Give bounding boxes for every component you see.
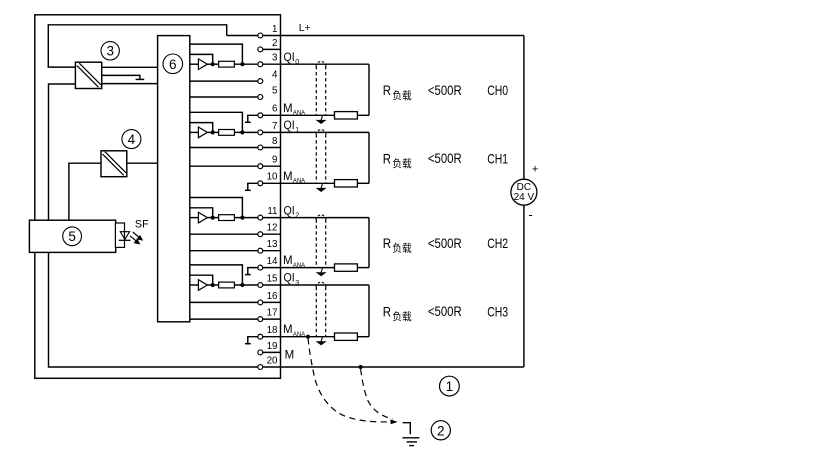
wire terminal 10 MANA stub [248, 183, 258, 190]
svg-text:<500R: <500R [428, 82, 462, 98]
wire converter 4 left rail down to box 5 [69, 163, 101, 220]
svg-text:7: 7 [272, 121, 277, 132]
svg-text:8: 8 [272, 136, 278, 147]
wire op-amp U00 output to resistor R01 [207, 63, 218, 65]
svg-text:R: R [383, 82, 391, 98]
svg-text:ANA: ANA [293, 262, 306, 269]
svg-text:M: M [283, 255, 293, 267]
node QI3 feedback junction [240, 283, 244, 287]
cable shield CH1 top cap [316, 130, 326, 135]
wire L+ supply rail [263, 35, 524, 37]
svg-text:5: 5 [272, 85, 278, 96]
wire box6 to terminal 12 [190, 233, 258, 235]
callout circle 1 [440, 376, 460, 396]
node M rail shield tap junction [359, 365, 363, 369]
ground lead arrowhead [391, 420, 397, 424]
cable shield CH0 top cap [316, 61, 326, 66]
svg-text:9: 9 [272, 155, 277, 166]
svg-text:15: 15 [267, 273, 278, 284]
wire resistor R31 to terminal 15 [234, 284, 257, 286]
LED D1 cathode bar [119, 239, 131, 241]
op-amp U00 buffer [198, 59, 207, 70]
wire box6 to terminal 4 [190, 80, 258, 82]
wire terminal 14 MANA stub [248, 268, 258, 275]
svg-text:负载: 负载 [392, 157, 412, 170]
svg-text:3: 3 [295, 280, 299, 287]
wire load resistor CH1 to loop [357, 182, 369, 184]
svg-text:3: 3 [272, 53, 278, 64]
svg-text:QI: QI [284, 120, 295, 132]
shield drain arrow CH1 [321, 184, 322, 188]
resistor R-load CH2 [335, 264, 358, 271]
terminal pin 19 circle [258, 350, 263, 355]
svg-text:CH0: CH0 [487, 82, 508, 98]
node MANA3 ground tap junction [306, 335, 310, 339]
wire box6 to op-amp U00 input [190, 63, 199, 65]
converter U3 diagonal stripe [77, 63, 101, 87]
wire terminal 18 MANA stub [248, 337, 258, 344]
terminal pin 12 circle [258, 232, 263, 237]
svg-text:SF: SF [135, 219, 149, 231]
ground hook wire [403, 423, 411, 435]
node amp1 output junction [211, 130, 215, 134]
svg-text:3: 3 [106, 44, 114, 59]
LED D1 emission arrow a [133, 232, 139, 237]
svg-text:负载: 负载 [392, 242, 412, 255]
monitor block U5 [29, 220, 115, 252]
svg-text:1: 1 [272, 24, 277, 35]
terminal pin 9 circle [258, 164, 263, 169]
wire QI0 external to load loop [263, 63, 369, 65]
svg-text:ANA: ANA [293, 331, 306, 338]
svg-text:13: 13 [267, 239, 278, 250]
terminal pin 20 circle [258, 365, 263, 370]
svg-text:ANA: ANA [293, 110, 306, 117]
cable shield CH2 top cap [316, 215, 326, 220]
internal ground bar at terminal 14 [245, 274, 251, 276]
wire MANA2 external to load resistor [263, 267, 335, 269]
shield drain arrow CH3 [321, 337, 322, 341]
wire load loop right edge CH0 [368, 64, 370, 115]
cable shield CH3 left dashed [315, 287, 317, 336]
wire box6 to terminal 16 [190, 301, 258, 303]
wire load resistor CH0 to loop [357, 114, 369, 116]
wire DC source negative lead [523, 205, 525, 367]
op-amp U20 buffer [198, 212, 207, 223]
svg-text:5: 5 [68, 229, 76, 244]
terminal pin 5 circle [258, 95, 263, 100]
svg-text:QI: QI [284, 205, 295, 217]
converter U3 box [75, 62, 101, 88]
wire box6 to terminal 8 [190, 147, 258, 149]
callout circle 2 [431, 421, 450, 440]
internal ground bar at converter 3 [136, 78, 145, 80]
resistor R21 sense [219, 215, 235, 221]
svg-text:12: 12 [267, 223, 278, 234]
node amp3 output junction [211, 283, 215, 287]
callout circle 5 [63, 227, 82, 246]
svg-text:1: 1 [446, 379, 454, 394]
LED holder box [115, 223, 124, 247]
svg-text:6: 6 [272, 104, 278, 115]
svg-text:M: M [283, 324, 293, 336]
terminal pin 3 circle [258, 62, 263, 67]
wire QI1 external to load loop [263, 131, 369, 133]
wire terminal 1 internal stub [227, 35, 258, 37]
wire resistor R01 to terminal 3 [234, 63, 257, 65]
wire box6 to terminal 17 [190, 318, 258, 320]
terminal pin 13 circle [258, 248, 263, 253]
shield drain arrow CH2 [321, 268, 322, 272]
wire converter 3 output top to box 6 [102, 66, 158, 68]
callout circle 3 [101, 42, 119, 60]
svg-text:R: R [383, 150, 391, 166]
svg-text:0: 0 [295, 59, 299, 66]
svg-text:+: + [532, 164, 538, 176]
svg-text:CH1: CH1 [487, 150, 508, 166]
wire terminal 13 stub to column [263, 250, 281, 252]
wire load loop right edge CH3 [368, 285, 370, 337]
svg-text:20: 20 [267, 355, 278, 366]
terminal pin 6 circle [258, 113, 263, 118]
svg-text:L+: L+ [299, 22, 311, 34]
cable shield CH3 top cap [316, 282, 326, 287]
svg-text:2: 2 [437, 423, 445, 438]
wire op-amp U30 output to resistor R31 [207, 284, 218, 286]
wire box6 to terminal 9 [190, 165, 258, 167]
internal ground bar at terminal 18 [245, 343, 251, 345]
wire converter 3 output bottom to box 6 [102, 83, 158, 85]
svg-text:R: R [383, 235, 391, 251]
wire L+ rail from terminal 1 to converter 3 input [48, 25, 226, 67]
svg-text:CH3: CH3 [487, 303, 508, 319]
wire M supply rail [263, 366, 524, 368]
wire M return from box 5 to terminal 20 [49, 252, 258, 367]
wire resistor R11 to terminal 7 [234, 131, 257, 133]
wire MANA1 external to load resistor [263, 182, 335, 184]
wire feedback lower box6 to node amp2 [190, 208, 213, 218]
svg-text:2: 2 [295, 212, 299, 219]
LED D1 emission arrow b [130, 236, 136, 241]
svg-text:19: 19 [267, 341, 278, 352]
LED D1 triangle [120, 232, 129, 240]
shield ground dashed curve from MANA3 [308, 338, 391, 422]
wire terminal 9 stub to column [263, 165, 281, 167]
wire load resistor CH2 to loop [357, 267, 369, 269]
wire feedback upper box6 to node QI1 [190, 112, 243, 132]
wire terminal 6 MANA stub [248, 115, 258, 122]
terminal pin 11 circle [258, 215, 263, 220]
svg-text:<500R: <500R [428, 235, 462, 251]
terminal pin 14 circle [258, 265, 263, 270]
resistor R-load CH1 [335, 180, 358, 187]
wire feedback upper box6 to node QI2 [190, 198, 243, 218]
node amp2 output junction [211, 216, 215, 220]
wire resistor R21 to terminal 11 [234, 217, 257, 219]
callout circle 4 [122, 130, 141, 149]
svg-text:ANA: ANA [293, 178, 306, 185]
svg-text:6: 6 [169, 57, 177, 72]
wire converter 3 center tap [102, 75, 140, 79]
svg-text:1: 1 [295, 127, 299, 134]
svg-text:16: 16 [267, 291, 278, 302]
svg-text:2: 2 [272, 38, 277, 49]
cable shield CH1 right dashed [325, 134, 327, 183]
cable shield CH1 left dashed [315, 134, 317, 183]
module outer frame [35, 15, 281, 379]
svg-text:4: 4 [272, 70, 278, 81]
cable shield CH2 right dashed [325, 219, 327, 267]
terminal pin 15 circle [258, 283, 263, 288]
wire terminal 16 stub to column [263, 301, 281, 303]
wire op-amp U10 output to resistor R11 [207, 131, 218, 133]
wire terminal 8 stub to column [263, 147, 281, 149]
terminal pin 16 circle [258, 300, 263, 305]
wire box6 to op-amp U20 input [190, 217, 199, 219]
shield drain arrow CH0 [321, 116, 322, 120]
resistor R-load CH3 [335, 333, 358, 340]
svg-text:-: - [528, 207, 532, 222]
wire load resistor CH3 to loop [357, 336, 369, 338]
source V1 DC 24V circle [511, 179, 537, 205]
logic block U6 [158, 36, 190, 322]
resistor R11 sense [219, 130, 235, 136]
wire QI2 external to load loop [263, 217, 369, 219]
svg-text:<500R: <500R [428, 303, 462, 319]
wire feedback lower box6 to node amp1 [190, 123, 213, 133]
converter U4 diagonal stripe [103, 152, 127, 176]
svg-text:QI: QI [284, 273, 295, 285]
svg-text:M: M [285, 350, 295, 362]
terminal pin 10 circle [258, 181, 263, 186]
svg-text:4: 4 [128, 132, 136, 147]
wire feedback upper box6 to node QI0 [190, 44, 243, 64]
callout circle 6 [163, 54, 183, 74]
svg-text:M: M [283, 171, 293, 183]
cable shield CH0 right dashed [325, 66, 327, 115]
svg-text:R: R [383, 303, 391, 319]
svg-text:17: 17 [267, 308, 278, 319]
terminal pin 4 circle [258, 79, 263, 84]
wire converter 3 return rail down to box 5 [49, 84, 76, 220]
earth ground symbol [402, 437, 419, 439]
wire box6 to op-amp U10 input [190, 131, 199, 133]
resistor R-load CH0 [335, 112, 358, 119]
wire terminal 19 stub [263, 351, 281, 353]
internal ground bar at terminal 6 [245, 121, 251, 123]
wire load loop right edge CH2 [368, 218, 370, 268]
wire box6 to op-amp U30 input [190, 284, 199, 286]
svg-text:10: 10 [267, 172, 278, 183]
cable shield CH3 right dashed [325, 287, 327, 336]
cable shield CH0 left dashed [315, 66, 317, 115]
svg-text:18: 18 [267, 325, 278, 336]
internal ground bar at terminal 10 [245, 189, 251, 191]
svg-text:CH2: CH2 [487, 235, 508, 251]
wire feedback lower box6 to node amp0 [190, 54, 213, 64]
wire feedback lower box6 to node amp3 [190, 275, 213, 285]
terminal pin 8 circle [258, 145, 263, 150]
wire terminal 2 stub [263, 48, 281, 50]
cable shield CH2 left dashed [315, 219, 317, 267]
wire load loop right edge CH1 [368, 132, 370, 183]
op-amp U10 buffer [198, 127, 207, 138]
node QI0 feedback junction [240, 62, 244, 66]
node amp0 output junction [211, 62, 215, 66]
wire op-amp U20 output to resistor R21 [207, 217, 218, 219]
svg-text:负载: 负载 [392, 89, 412, 102]
terminal pin 1 circle [258, 33, 263, 38]
wire converter 4 to box 6 [127, 162, 158, 164]
terminal pin 18 circle [258, 334, 263, 339]
wire box6 to terminal 5 [190, 96, 258, 98]
wire box6 to terminal 13 [190, 250, 258, 252]
svg-text:<500R: <500R [428, 150, 462, 166]
node QI2 feedback junction [240, 216, 244, 220]
wire feedback upper box6 to node QI3 [190, 265, 243, 285]
resistor R01 sense [219, 61, 235, 67]
wire QI3 external to load loop [263, 284, 369, 286]
node QI1 feedback junction [240, 130, 244, 134]
svg-text:QI: QI [284, 52, 295, 64]
wire terminal 12 stub to column [263, 233, 281, 235]
terminal pin 7 circle [258, 130, 263, 135]
wire MANA0 external to load resistor [263, 114, 335, 116]
svg-text:M: M [283, 103, 293, 115]
svg-text:负载: 负载 [392, 310, 412, 323]
wire DC source positive lead [523, 36, 525, 180]
wire MANA3 external to load resistor [263, 336, 335, 338]
svg-text:14: 14 [267, 256, 278, 267]
wire terminal 17 stub to column [263, 318, 281, 320]
shield ground dashed curve from M rail [361, 369, 393, 419]
terminal pin 17 circle [258, 317, 263, 322]
terminal pin 2 circle [258, 47, 263, 52]
op-amp U30 buffer [198, 280, 207, 291]
resistor R31 sense [219, 282, 235, 288]
converter U4 box [101, 151, 127, 177]
svg-text:24 V: 24 V [514, 192, 535, 203]
svg-text:11: 11 [267, 206, 277, 217]
